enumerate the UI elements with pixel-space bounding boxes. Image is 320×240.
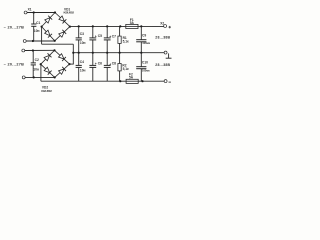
terminal X2 pin 3 xyxy=(164,80,167,83)
svg-text:5,1к: 5,1к xyxy=(123,39,129,43)
diode VD2.1 xyxy=(44,55,49,60)
node R1 bottom junction xyxy=(119,52,121,54)
fuse FU1 body xyxy=(126,24,138,28)
diode VD2.4 xyxy=(59,69,65,74)
node VD1 right corner xyxy=(69,26,71,28)
capacitor C10 xyxy=(140,53,142,67)
svg-text:100мк: 100мк xyxy=(142,41,150,45)
resistor R2 leads xyxy=(119,53,121,64)
node C7 top junction xyxy=(106,25,108,27)
wire bottom AC2 xyxy=(25,76,55,78)
svg-text:10н: 10н xyxy=(80,69,86,73)
bridge VD2 arm B-R wire xyxy=(55,64,70,77)
svg-text:C10: C10 xyxy=(142,61,148,65)
svg-text:28...38В: 28...38В xyxy=(155,36,170,40)
svg-text:C8: C8 xyxy=(112,61,116,65)
svg-text:C9: C9 xyxy=(142,33,146,37)
bridge VD1 arm B-R wire xyxy=(55,27,70,41)
svg-text:5A: 5A xyxy=(130,21,135,25)
diode VD1.4 xyxy=(59,32,65,37)
terminal X1 pin 1 xyxy=(24,11,27,14)
diode VD1.1 xyxy=(45,18,50,24)
diode VD2.2 xyxy=(58,54,64,59)
svg-text:+: + xyxy=(95,62,97,66)
wire bottom AC1 xyxy=(25,49,55,51)
wire minus bus xyxy=(41,80,164,82)
svg-text:10н: 10н xyxy=(33,67,39,71)
terminal X2 pin 1 xyxy=(164,25,167,28)
bridge VD2 arm T-L wire xyxy=(41,50,55,64)
svg-text:C1: C1 xyxy=(36,21,40,25)
resistor R1 body xyxy=(118,36,121,43)
svg-text:~ 20...27В: ~ 20...27В xyxy=(4,63,25,67)
svg-text:5A: 5A xyxy=(129,76,134,80)
svg-text:C3: C3 xyxy=(80,32,84,36)
node C3 bottom junction xyxy=(78,52,80,54)
svg-text:~ 20...27В: ~ 20...27В xyxy=(4,26,25,30)
node C2 top junction xyxy=(32,49,34,51)
node VD2 top corner xyxy=(53,49,55,51)
node C5 bottom junction xyxy=(92,52,94,54)
svg-text:+: + xyxy=(95,34,97,38)
chassis ground xyxy=(168,53,170,58)
svg-text:C2: C2 xyxy=(35,58,39,62)
wire VD2 plus jog xyxy=(70,63,74,65)
resistor R1 leads xyxy=(119,26,121,36)
node VD2 bottom corner xyxy=(54,76,56,78)
diode VD1.2 xyxy=(59,16,65,21)
svg-text:10н: 10н xyxy=(34,29,40,33)
svg-text:C7: C7 xyxy=(112,35,116,39)
terminal X1 pin 4 xyxy=(22,76,25,79)
node C1 top junction xyxy=(33,11,35,13)
bridge VD2 arm T-R wire xyxy=(55,50,70,64)
diode VD2.3 xyxy=(44,67,50,72)
node C3 top junction xyxy=(78,25,80,27)
capacitor C1 plates xyxy=(31,23,36,25)
capacitor C2 leads xyxy=(32,51,34,63)
wire plus bus xyxy=(70,25,164,27)
node C5 top junction xyxy=(92,25,94,27)
node VD1 bottom corner xyxy=(54,40,56,42)
fuse FU2 wire through xyxy=(126,80,138,82)
node VD1 left corner xyxy=(41,26,43,28)
node C2 bottom junction xyxy=(33,76,35,78)
wire top AC1 xyxy=(27,12,55,14)
capacitor C4 xyxy=(78,53,80,66)
svg-text:10н: 10н xyxy=(80,41,86,45)
label minus output xyxy=(169,81,171,83)
label plus output xyxy=(169,26,172,28)
fuse FU1 wire through xyxy=(126,25,138,27)
diode VD1.3 xyxy=(45,30,50,36)
node R1 top junction xyxy=(119,25,121,27)
capacitor C2 plates xyxy=(31,62,36,64)
svg-text:5,1к: 5,1к xyxy=(123,67,129,71)
svg-text:28...38В: 28...38В xyxy=(155,63,170,67)
bridge VD1 arm T-L wire xyxy=(42,13,55,27)
svg-text:X1: X1 xyxy=(28,8,32,12)
node VD2 left corner xyxy=(40,63,42,65)
bridge VD1 arm L-B wire xyxy=(42,27,55,41)
bridge VD2 arm L-B wire xyxy=(41,64,55,77)
capacitor C9 xyxy=(140,26,142,39)
wire mid rail xyxy=(73,52,164,54)
fuse FU2 body xyxy=(126,79,138,83)
capacitor C6 xyxy=(92,53,94,66)
wire top AC2 xyxy=(26,40,54,42)
node R2 bottom junction xyxy=(119,80,121,82)
wire VD2 minus drop xyxy=(40,64,42,81)
wire minus to mid rail xyxy=(72,44,74,64)
svg-text:KBU802: KBU802 xyxy=(41,89,52,93)
capacitor C3 xyxy=(78,26,80,38)
terminal X2 pin 2 xyxy=(164,51,167,54)
svg-text:C5: C5 xyxy=(98,34,102,38)
svg-text:X2: X2 xyxy=(160,21,164,25)
capacitor C1 leads xyxy=(33,13,35,25)
node C10 bottom junction xyxy=(141,80,143,82)
node mid rail left junction xyxy=(72,52,74,54)
bridge VD1 arm T-R wire xyxy=(55,13,70,27)
svg-text:100мк: 100мк xyxy=(142,68,150,72)
terminal X1 pin 2 xyxy=(23,40,26,43)
wire VD1 minus drop xyxy=(41,27,43,45)
node VD1 top corner xyxy=(54,11,56,13)
node C9 top junction xyxy=(140,25,142,27)
wire minus link top xyxy=(42,43,74,45)
svg-text:KBU802: KBU802 xyxy=(64,11,75,15)
node C1 bottom junction xyxy=(32,40,34,42)
capacitor C8 xyxy=(106,53,108,66)
node C7 bottom junction xyxy=(106,52,108,54)
capacitor C7 xyxy=(106,26,108,38)
capacitor C5 xyxy=(92,26,94,38)
node C9 bottom junction xyxy=(140,52,142,54)
svg-text:C4: C4 xyxy=(80,60,84,64)
svg-text:C6: C6 xyxy=(98,61,102,65)
node VD2 right corner xyxy=(68,63,70,65)
resistor R2 body xyxy=(118,64,121,71)
terminal X1 pin 3 xyxy=(22,49,25,52)
